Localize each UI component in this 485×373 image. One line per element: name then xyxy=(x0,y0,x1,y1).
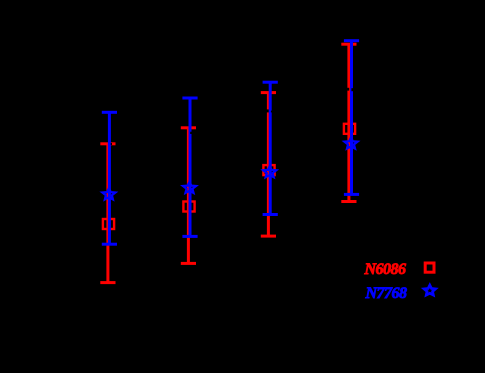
blue error bar group 4 (N7768) xyxy=(344,41,359,195)
black overlapping-marker notch group 3 (right) xyxy=(271,111,273,113)
red open-square marker group 1 xyxy=(103,219,114,229)
red error bar group 4 (N6086) xyxy=(341,44,356,201)
svg-text:N6086: N6086 xyxy=(364,261,407,278)
red open-square marker group 3 xyxy=(263,165,274,175)
blue open-star marker group 1 xyxy=(102,188,115,199)
red error bar group 2 (N6086) xyxy=(181,128,196,264)
red open-square marker group 2 xyxy=(183,202,194,212)
blue open-star marker group 4 xyxy=(345,138,358,149)
blue open-star marker group 3 xyxy=(263,166,276,177)
black overlapping-marker notch group 1 xyxy=(111,143,112,145)
blue error bar group 1 (N7768) xyxy=(102,112,117,244)
blue error bar group 2 (N7768) xyxy=(182,98,197,236)
red error bar group 1 (N6086) xyxy=(100,144,115,283)
red open-square marker group 4 xyxy=(344,124,355,134)
black overlapping-marker notch group 3 (left) xyxy=(266,109,269,112)
blue open-star marker group 2 xyxy=(183,182,196,193)
legend marker blue open star xyxy=(424,285,435,295)
red error bar group 3 (N6086) xyxy=(261,93,276,237)
black overlapping-marker notch group 2 xyxy=(190,132,192,134)
blue error bar group 3 (N7768) xyxy=(263,82,278,214)
black overlapping-marker notch group 4 (left) xyxy=(347,88,350,91)
svg-text:N7768: N7768 xyxy=(365,285,408,302)
legend marker red open square xyxy=(425,263,434,272)
black overlapping-marker notch group 4 (right) xyxy=(351,88,354,91)
